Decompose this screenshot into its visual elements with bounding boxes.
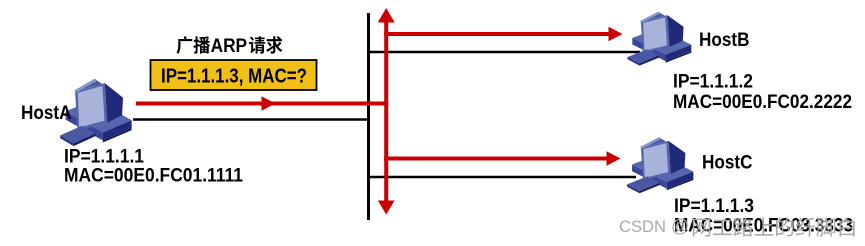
watermark CSDN <box>619 216 855 237</box>
svg-text:HostB: HostB <box>699 30 750 51</box>
ARP request payload box <box>151 60 317 90</box>
svg-text:HostA: HostA <box>21 103 72 124</box>
host icon HostB <box>628 12 692 66</box>
svg-text:@: @ <box>671 216 689 236</box>
title: broadcast ARP request (Chinese) <box>176 36 282 57</box>
ARP broadcast arrow: bus to HostC (red) <box>384 151 620 165</box>
label HostC <box>702 153 753 174</box>
wire: HostA to bus (black) <box>133 118 370 121</box>
svg-text:IP=1.1.1.1: IP=1.1.1.1 <box>64 147 144 168</box>
wire: bus to HostC (black) <box>367 176 636 179</box>
label HostB <box>699 30 750 51</box>
svg-text:CSDN: CSDN <box>619 217 666 236</box>
label HostC MAC <box>674 216 853 237</box>
svg-text:HostC: HostC <box>702 153 753 174</box>
svg-text:IP=1.1.1.3: IP=1.1.1.3 <box>674 196 754 217</box>
svg-text:MAC=00E0.FC02.2222: MAC=00E0.FC02.2222 <box>673 92 852 113</box>
bus: vertical ethernet segment <box>367 13 370 220</box>
label HostA <box>21 103 72 124</box>
ARP broadcast arrow: bus to HostB (red) <box>384 27 622 41</box>
label HostB IP <box>673 72 753 93</box>
svg-text:IP=1.1.1.2: IP=1.1.1.2 <box>673 72 753 93</box>
label HostC IP <box>674 196 754 217</box>
ARP request arrow: HostA to bus (red) <box>136 96 388 110</box>
svg-text:MAC=00E0.FC01.1111: MAC=00E0.FC01.1111 <box>64 166 243 187</box>
svg-text:IP=1.1.1.3, MAC=?: IP=1.1.1.3, MAC=? <box>161 65 307 88</box>
label HostA IP <box>64 147 144 168</box>
wire: bus to HostB (black) <box>367 51 640 54</box>
host icon HostA <box>60 79 131 146</box>
label HostA MAC <box>64 166 243 187</box>
label HostB MAC <box>673 92 852 113</box>
svg-text:ARP: ARP <box>211 36 248 57</box>
host icon HostC <box>627 137 693 193</box>
ARP broadcast arrow: up the bus (red) <box>378 8 395 215</box>
